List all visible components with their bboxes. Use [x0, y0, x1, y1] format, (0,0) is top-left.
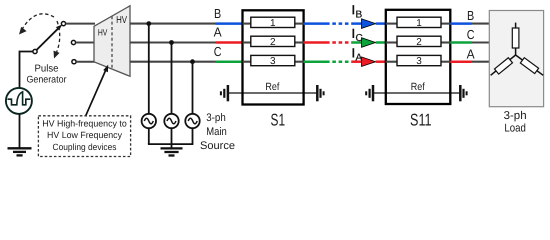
svg-text:Coupling devices: Coupling devices	[53, 142, 117, 152]
svg-text:B: B	[467, 8, 474, 23]
svg-text:HV High-frequency to: HV High-frequency to	[42, 118, 127, 128]
svg-text:A: A	[214, 25, 222, 40]
svg-text:C: C	[467, 27, 475, 42]
svg-text:Ref: Ref	[265, 81, 279, 93]
svg-text:Ref: Ref	[411, 81, 425, 93]
svg-text:A: A	[467, 46, 475, 61]
svg-text:C: C	[356, 33, 363, 44]
svg-text:S11: S11	[410, 111, 432, 130]
svg-text:3: 3	[270, 56, 276, 67]
svg-text:C: C	[214, 44, 222, 59]
svg-text:HV: HV	[116, 15, 127, 26]
svg-text:S1: S1	[271, 111, 286, 130]
svg-text:HV Low Frequency: HV Low Frequency	[47, 130, 122, 140]
svg-text:Generator: Generator	[27, 75, 68, 86]
svg-text:1: 1	[270, 18, 276, 29]
svg-text:2: 2	[270, 37, 276, 48]
svg-text:A: A	[356, 53, 363, 64]
svg-text:1: 1	[416, 18, 422, 29]
svg-text:2: 2	[416, 37, 422, 48]
svg-text:3-ph: 3-ph	[504, 110, 527, 122]
svg-text:Pulse: Pulse	[35, 64, 59, 75]
svg-text:3: 3	[416, 56, 422, 67]
svg-text:HV: HV	[98, 28, 108, 38]
svg-text:B: B	[214, 6, 221, 21]
svg-text:Main: Main	[206, 126, 227, 138]
svg-text:Load: Load	[504, 122, 526, 134]
svg-text:Source: Source	[200, 140, 235, 152]
svg-text:3-ph: 3-ph	[206, 112, 226, 124]
svg-text:B: B	[356, 9, 363, 20]
